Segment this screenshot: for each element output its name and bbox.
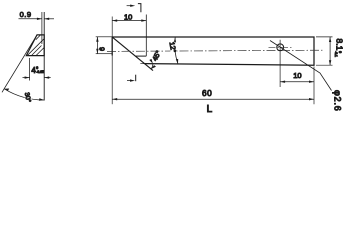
blade outline: top edge, right edge, bottom edge, left face bbox=[112, 37, 314, 65]
30° angle arc bbox=[4, 89, 44, 100]
dimension 8 text with tolerance (rotated) bbox=[334, 39, 345, 58]
svg-text:10: 10 bbox=[124, 13, 132, 22]
svg-text:60: 60 bbox=[202, 88, 212, 98]
bottom edge extension left of apex bbox=[140, 63, 144, 65]
φ2.6 text (rotated) bbox=[332, 90, 342, 112]
centerline (dash-dot) bbox=[107, 50, 324, 51]
12° angle arc with arrows bbox=[175, 38, 178, 64]
wedge cross-section outline (hatched triangle) bbox=[26, 35, 44, 56]
hole vertical centerline / extension for dim 10 bbox=[279, 40, 281, 87]
hatching bbox=[28, 35, 44, 56]
dimension 10 (hole to end) dim line with arrows bbox=[280, 81, 314, 83]
dimension 6 extension lines bbox=[96, 36, 112, 38]
extension line / right edge of wedge x=44.2 (long, to 30° arc) bbox=[43, 12, 45, 101]
extension line (inner land edge) x=41.9 bbox=[41, 12, 43, 44]
hole horizontal centerline bbox=[269, 46, 293, 48]
svg-text:0.9: 0.9 bbox=[20, 10, 32, 19]
view direction mark bottom (arrow + bracket) bbox=[127, 80, 132, 82]
leader line for φ2.6 bbox=[270, 41, 332, 91]
svg-text:L: L bbox=[207, 104, 213, 115]
dimension 8.1 dim line with arrows bbox=[329, 37, 331, 65]
grind facet step: horizontal bbox=[136, 55, 147, 57]
view direction mark top (arrow + bracket) bbox=[127, 5, 132, 7]
dimension 0.9 dim line right segment with arrow bbox=[44, 18, 54, 20]
45° text (rotated) bbox=[151, 49, 163, 62]
45° grind diagonal with extension bbox=[112, 37, 153, 70]
grind facet step: vertical / extension for dim 10 bbox=[145, 15, 147, 57]
right extension line x=314 (below part, for dims 10 and 60) bbox=[313, 67, 315, 105]
dimension 10 (tip length) dim line with arrows bbox=[112, 20, 146, 22]
dimension 6 text (rotated) bbox=[100, 47, 107, 51]
30° text bbox=[23, 91, 33, 103]
svg-text:-0.05: -0.05 bbox=[36, 70, 44, 74]
svg-text:6: 6 bbox=[100, 47, 107, 51]
dimension 0.9 dim line left segment with arrow bbox=[19, 18, 42, 20]
12° text (rotated) bbox=[168, 41, 178, 53]
hole circle bbox=[277, 44, 284, 51]
svg-text:φ2.6: φ2.6 bbox=[332, 90, 342, 112]
45° angle arc with arrows bbox=[151, 64, 153, 69]
dimension 6 dim line with arrows bbox=[96, 37, 98, 54]
dimension 4 dim line outside-left with arrow bbox=[23, 77, 30, 79]
dimension 8.1 extension lines (right end) bbox=[316, 36, 333, 38]
dimension 60 / L dim line with arrows bbox=[112, 98, 314, 100]
svg-text:10: 10 bbox=[293, 71, 301, 80]
left extension line x=112.2 (for dims 10, 60, L) bbox=[111, 17, 113, 105]
svg-text:8.1: 8.1 bbox=[335, 39, 345, 51]
dimension 4 extension line bbox=[29, 58, 31, 81]
30° angle arm (hypotenuse extension) bbox=[2, 35, 37, 92]
svg-text:-0.1: -0.1 bbox=[334, 51, 338, 57]
dimension 4 dim line outside-right with arrow bbox=[44, 77, 51, 79]
